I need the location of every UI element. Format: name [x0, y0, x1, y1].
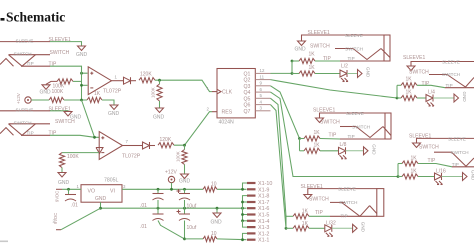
svg-text:SWITCH: SWITCH [352, 124, 370, 129]
wire +12V to R3 [31, 99, 49, 101]
ground GND (J4 sleeve) [407, 66, 415, 71]
junction X1-1 [241, 238, 244, 241]
svg-text:SLEEVE: SLEEVE [448, 136, 466, 141]
wire Q4 to group L/16 [271, 92, 399, 176]
svg-text:VO: VO [88, 189, 96, 195]
svg-text:SWITCH: SWITCH [419, 145, 439, 151]
svg-text:SLEEVE1: SLEEVE1 [49, 37, 71, 43]
wire R19 to LED [286, 227, 325, 229]
wire R13 to LED [397, 97, 426, 99]
capacitor C5 10uf (rail B-C) [177, 208, 197, 239]
pin 12 Q1 stub [255, 68, 270, 73]
header pin X1-5 [247, 213, 269, 219]
wire Q2 to group L/4 [271, 80, 398, 98]
svg-text:X1-3: X1-3 [258, 225, 269, 231]
ground GND rotated (L/8) [364, 144, 377, 155]
jack J6 (L/16 group, cut at right) [417, 136, 474, 167]
resistor R10 1K (tip row) [299, 52, 315, 64]
svg-text:9VDC: 9VDC [55, 191, 60, 202]
wire J1 sleeve to ground [50, 42, 82, 46]
power connector X2 pin1 [55, 189, 63, 202]
net label SLEEVE1 (J3) [308, 30, 330, 36]
svg-text:SWITCH: SWITCH [320, 119, 340, 125]
pin 9 Q3 stub [255, 81, 270, 86]
net label SWITCH (J6) [419, 145, 439, 151]
svg-text:TIP: TIP [27, 61, 34, 66]
jack J3 (L/2 group) [302, 33, 391, 61]
svg-text:1K: 1K [411, 156, 418, 162]
resistor R17 1K (LED row) [402, 169, 418, 179]
svg-text:6: 6 [260, 87, 263, 92]
wire LED to ground [346, 150, 364, 152]
wire rail B (GND) [101, 207, 247, 209]
resistor R14 1K (tip row) [304, 130, 320, 141]
wire J2 tip to U1B + input [50, 135, 99, 137]
svg-text:SWITCH: SWITCH [309, 196, 329, 202]
junction X1-9 [241, 188, 244, 191]
capacitor C1 .01 [65, 189, 78, 208]
net label SLEEVE1 (J7) [301, 184, 323, 190]
svg-text:X1-1: X1-1 [258, 238, 269, 244]
ground GND (J6 sleeve) [413, 143, 421, 148]
wire R10 to tip [292, 60, 340, 62]
header pin X1-9 [247, 187, 269, 193]
svg-text:X1-2: X1-2 [258, 231, 269, 237]
svg-text:7805L: 7805L [104, 177, 119, 183]
wire R8 to RES pin [174, 112, 212, 146]
junction chain dots [241, 201, 244, 223]
wire R17 to LED [398, 176, 435, 178]
wire bias node to U1B + input [82, 100, 95, 137]
pin 11 Q2 stub [255, 74, 270, 79]
svg-text:L/8: L/8 [340, 142, 347, 148]
svg-text:SLEEVE: SLEEVE [338, 187, 356, 192]
net label SWITCH (J7) [309, 196, 329, 202]
svg-text:12: 12 [260, 68, 265, 73]
diode D1 [116, 77, 137, 84]
resistor R13 1K (LED row) [401, 89, 417, 100]
jack J1 (top left, partially cut) [0, 38, 50, 66]
svg-text:100K: 100K [67, 154, 79, 160]
junction rail C [183, 238, 186, 241]
svg-text:SLEEVE: SLEEVE [346, 111, 364, 116]
wire Q5 to group L/32 tip row [271, 98, 287, 216]
svg-text:SLEEVE1: SLEEVE1 [403, 55, 425, 61]
svg-text:1K: 1K [411, 169, 418, 175]
header pin X1-8 [247, 194, 269, 200]
svg-text:1K: 1K [302, 221, 309, 227]
svg-text:GND: GND [76, 52, 88, 58]
svg-text:Q1: Q1 [244, 71, 251, 77]
svg-text:X1-9: X1-9 [258, 187, 269, 193]
svg-text:Q5: Q5 [244, 96, 251, 102]
junction R8/R9 [183, 144, 186, 147]
svg-text:4: 4 [260, 99, 263, 104]
junction rail A dots [157, 188, 186, 191]
net label SWITCH (J4) [409, 69, 429, 75]
svg-text:+12V: +12V [165, 170, 177, 176]
net label SWITCH (J2) [55, 119, 75, 125]
resistor R21 10 (rail C) [203, 231, 217, 241]
svg-text:3: 3 [260, 106, 263, 111]
wire LED to ground [442, 176, 463, 178]
net label SWITCH (J5) [320, 119, 340, 125]
ground GND (J1 sleeve) [76, 46, 88, 58]
junction Q4 node [397, 175, 400, 178]
net label SLEEVE1 (J6) [409, 134, 431, 140]
wire R6 to ground [159, 80, 161, 107]
wire LED to ground [433, 97, 454, 99]
svg-text:Schematic: Schematic [6, 10, 65, 25]
svg-text:Q3: Q3 [244, 84, 251, 90]
svg-text:.01: .01 [140, 203, 147, 209]
svg-text:X1-4: X1-4 [258, 219, 269, 225]
junction Q1 node [291, 60, 294, 75]
wire junction vertical (J7 rows) [285, 216, 287, 228]
svg-text:Q2: Q2 [244, 78, 251, 84]
jack J2 (left, partially cut) [0, 108, 50, 136]
pin 5 Q5 stub [255, 93, 270, 98]
net label SLEEVE1 (J5) [313, 108, 335, 114]
LED L/16 [435, 169, 446, 185]
svg-text:1K: 1K [94, 91, 101, 97]
wire VO to connector (rail A left) [62, 188, 81, 190]
net label TIP (J6) [428, 158, 436, 164]
wire X1-3 hook to X1-4 [243, 221, 248, 227]
svg-text:TL072P: TL072P [103, 89, 122, 95]
svg-text:SWITCH: SWITCH [14, 51, 32, 56]
svg-text:1K: 1K [309, 52, 316, 58]
resistor R8 120K [158, 137, 174, 148]
svg-text:GND: GND [179, 179, 191, 185]
resistor R7 100K (U1B - to gnd) [59, 153, 79, 168]
svg-text:GND: GND [95, 196, 107, 202]
svg-text:SLEEVE1: SLEEVE1 [301, 184, 323, 190]
svg-text:SLEEVE: SLEEVE [16, 108, 34, 113]
ground GND rotated (L/2) [358, 67, 371, 78]
ground GND (R4) [108, 105, 120, 117]
svg-text:SWITCH: SWITCH [345, 46, 363, 51]
resistor R15 1K (LED row) [304, 143, 320, 154]
wire R14 to tip [300, 138, 341, 141]
svg-text:GND: GND [372, 144, 377, 155]
junction (+ input node) [80, 72, 83, 75]
junction Q5/Q6 node [285, 227, 288, 230]
svg-text:X1-10: X1-10 [258, 181, 272, 187]
svg-text:SWITCH: SWITCH [442, 72, 460, 77]
junction Q3 node [298, 137, 301, 140]
header pin X1-6 [247, 206, 269, 212]
jack J7 (L/32 group) [308, 187, 384, 219]
header pin X1-7 [247, 200, 269, 206]
junction VO node [67, 188, 70, 191]
wire X1-8 hook to X1-7 [243, 196, 248, 202]
svg-text:X1-7: X1-7 [258, 200, 269, 206]
svg-text:SLEEVE: SLEEVE [442, 60, 460, 65]
supply +12V (rail tap) [165, 170, 177, 183]
header pin X1-4 [247, 219, 269, 225]
ground GND rotated (L/4) [454, 92, 467, 103]
op-amp U1B TL072P [96, 132, 127, 160]
junction U1B + input [93, 136, 96, 139]
svg-text:.01: .01 [71, 203, 78, 209]
svg-text:L/4: L/4 [428, 89, 435, 95]
net label TIP (J2) [49, 131, 57, 137]
resistor R5 120K [139, 72, 155, 83]
svg-text:SWITCH: SWITCH [339, 200, 357, 205]
svg-text:TIP: TIP [348, 56, 355, 61]
svg-text:1K: 1K [314, 143, 321, 149]
svg-text:1K: 1K [314, 130, 321, 136]
ground GND (J3 sleeve) [295, 41, 307, 53]
wire 7805 GND pin to rail B [100, 202, 102, 208]
wire U1B - input to R7 [62, 152, 99, 154]
label TL072P (U1A) [103, 89, 122, 95]
svg-text:1K: 1K [406, 89, 413, 95]
op-amp U1A TL072P [88, 67, 115, 95]
wire R4 to ground [102, 100, 114, 105]
jack J4 (L/4 group, cut at right) [411, 60, 474, 89]
header pin X1-2 [247, 231, 269, 237]
wire group vertical joins [292, 61, 398, 177]
wire R18 to tip [286, 215, 330, 217]
ground GND (R6) [153, 108, 165, 120]
svg-text:SWITCH: SWITCH [451, 150, 469, 155]
wire X1-2 hook to X1-1 [243, 233, 248, 239]
pin 1 VO stub [77, 184, 80, 189]
LED L/2 [340, 64, 348, 82]
wire LED to ground [347, 73, 358, 75]
wire rail C [185, 238, 247, 241]
ground GND (R7) [58, 173, 70, 187]
header pin X1-3 [247, 225, 269, 231]
net label SLEEVE1 (J2) [49, 106, 71, 112]
svg-text:TIP: TIP [348, 134, 355, 139]
resistor R11 1K (LED row) [299, 65, 315, 76]
pin 3 VI stub [123, 184, 126, 189]
junction R5/R6 [158, 79, 161, 82]
resistor R20 10 (rail A) [203, 182, 217, 192]
svg-text:11: 11 [260, 74, 265, 79]
wire R11 to LED [292, 73, 340, 75]
resistor R9 100K (vertical to gnd) [176, 150, 188, 165]
svg-text:GND: GND [70, 115, 82, 121]
svg-text:4024N: 4024N [219, 120, 235, 126]
svg-text:TIP: TIP [452, 162, 459, 167]
ground GND (J7 sleeve) [304, 195, 312, 200]
wire gnd chain X1-7..X1-4 [243, 202, 248, 221]
svg-text:X1-8: X1-8 [258, 194, 269, 200]
svg-text:5: 5 [260, 93, 263, 98]
wire R2 to - node [73, 80, 82, 82]
LED L/8 [339, 142, 347, 159]
svg-text:1K: 1K [302, 209, 309, 215]
wire +12V tap to rail A [171, 183, 173, 190]
svg-text:TIP: TIP [315, 210, 323, 216]
wire R15 to LED [300, 150, 339, 152]
pin 4 Q6 stub [255, 99, 270, 104]
svg-text:SLEEVE1: SLEEVE1 [313, 108, 335, 114]
capacitor C3 10uf (rail A-B) [177, 189, 197, 210]
wire R9 to ground [184, 145, 186, 173]
net label SLEEVE1 (J1) [49, 37, 71, 43]
wire J2 sleeve to ground [50, 110, 68, 113]
svg-text:100K: 100K [52, 89, 64, 95]
title text "Schematic" [1, 10, 66, 25]
svg-text:GND: GND [58, 180, 70, 186]
junction Q2 node [396, 97, 399, 100]
svg-text:SLEEVE: SLEEVE [16, 38, 34, 43]
svg-text:10: 10 [211, 231, 217, 237]
svg-text:GND: GND [40, 89, 52, 95]
ground GND (rail B tap) [211, 208, 223, 225]
frame fragment (bottom left) [0, 241, 8, 243]
svg-text:GND: GND [471, 170, 474, 181]
resistor R18 1K (tip row) [293, 209, 309, 219]
net label TIP (J4) [422, 81, 430, 87]
net label TIP (J5) [329, 133, 337, 139]
IC U2 4024N counter [217, 69, 255, 126]
capacitor C2 .01 (rail A-B) [140, 189, 164, 209]
net label SWITCH (J1) [50, 50, 70, 56]
junction (- input) [80, 84, 83, 87]
wire rail A (12V) [122, 188, 247, 190]
net label TIP (J3) [323, 56, 331, 62]
label TL072P (U1B) [122, 154, 141, 160]
resistor R16 1K (tip row) [402, 156, 418, 166]
jack J5 (L/8 group) [320, 111, 392, 139]
svg-text:100K: 100K [151, 86, 156, 98]
wire R12 to tip [397, 85, 445, 87]
svg-text:Q4: Q4 [244, 90, 251, 96]
svg-text:SLEEVE: SLEEVE [345, 33, 363, 38]
wire LED to ground [332, 227, 353, 229]
ground GND rotated (L/16) [463, 170, 474, 181]
supply +12V (left) [16, 92, 31, 104]
wire - input node [82, 66, 88, 100]
svg-text:TIP: TIP [446, 83, 453, 88]
svg-text:SWITCH: SWITCH [310, 44, 330, 50]
svg-text:2: 2 [207, 106, 210, 111]
svg-text:TIP: TIP [422, 81, 430, 87]
resistor R12 1K (tip row) [401, 77, 417, 88]
resistor R3 100K (bias divider top) [49, 89, 64, 103]
svg-text:L/2: L/2 [341, 64, 348, 70]
pin 3 Q7 stub [255, 106, 270, 111]
ground GND rotated (L/32) [353, 222, 366, 233]
pin 1 CLK stub [207, 86, 218, 91]
svg-text:SWITCH: SWITCH [409, 69, 429, 75]
svg-text:9: 9 [260, 81, 263, 86]
resistor R6 100K (vertical to gnd) [151, 84, 163, 101]
svg-text:Q6: Q6 [244, 103, 251, 109]
svg-text:TIP: TIP [329, 133, 337, 139]
junction rail B dots [99, 207, 244, 210]
header pin X1-10 [247, 181, 272, 187]
svg-text:L/16: L/16 [436, 169, 446, 175]
svg-text:GND: GND [108, 111, 120, 117]
ground GND (J5 sleeve) [316, 118, 324, 123]
svg-text:TL072P: TL072P [122, 154, 141, 160]
wire R5 to CLK [155, 80, 212, 91]
ground GND (R9) [179, 174, 191, 185]
svg-text:SWITCH: SWITCH [50, 50, 70, 56]
svg-text:GND: GND [361, 222, 366, 233]
pin 2 RES stub [207, 106, 218, 111]
junction bias node [80, 99, 83, 102]
wire rail B to X2 pin2 [61, 208, 101, 230]
ground GND (R2) [40, 85, 52, 96]
regulator VR1 7805L [81, 177, 122, 202]
svg-text:VI: VI [110, 189, 115, 195]
svg-text:TIP: TIP [27, 130, 34, 135]
svg-text:X1-5: X1-5 [258, 213, 269, 219]
svg-text:120K: 120K [160, 137, 172, 143]
svg-text:3: 3 [123, 184, 126, 189]
svg-text:SLEEVE1: SLEEVE1 [409, 134, 431, 140]
svg-text:+12V: +12V [16, 92, 21, 104]
wire X1-10 hook to X1-9 [243, 183, 248, 189]
net label SLEEVE1 (J4) [403, 55, 425, 61]
wire R16 to tip [398, 164, 452, 167]
resistor R2 100K (to - input) [46, 79, 73, 90]
resistor R19 1K (LED row) [293, 221, 309, 231]
capacitor C4 .01 (rail B-C) [140, 208, 185, 239]
ground GND (J2 sleeve) [64, 112, 82, 121]
svg-text:1K: 1K [406, 77, 413, 83]
svg-text:GND: GND [366, 67, 371, 78]
net label SWITCH (J3) [310, 44, 330, 50]
svg-text:SLEEVE1: SLEEVE1 [308, 30, 330, 36]
svg-text:GND: GND [153, 114, 165, 120]
resistor R4 1K (bias divider bottom) [87, 91, 102, 103]
svg-text:10uf: 10uf [187, 225, 197, 231]
svg-text:GND: GND [295, 47, 307, 53]
net label TIP (J7) [315, 210, 323, 216]
svg-text:7: 7 [126, 139, 129, 144]
svg-text:10uf: 10uf [187, 204, 197, 210]
svg-text:1: 1 [77, 184, 80, 189]
svg-text:SWITCH: SWITCH [14, 121, 32, 126]
svg-text:10: 10 [211, 182, 217, 188]
svg-text:CLK: CLK [222, 90, 233, 96]
svg-text:1K: 1K [309, 65, 316, 71]
wire Q3 to group L/8 [271, 86, 300, 139]
svg-text:1: 1 [115, 74, 118, 79]
wire Q6 to group L/32 LED row [271, 105, 287, 229]
diode D2 [127, 142, 156, 149]
wire Q1 to group L/2 [271, 61, 293, 73]
svg-text:GND: GND [462, 92, 467, 103]
svg-text:100K: 100K [176, 150, 181, 162]
svg-text:TIP: TIP [341, 214, 348, 219]
svg-text:L/32: L/32 [326, 221, 336, 227]
svg-text:Q7: Q7 [244, 109, 251, 115]
svg-text:.01: .01 [140, 224, 147, 230]
power connector X2 pin2 [53, 213, 62, 230]
header pin X1-1 [247, 238, 269, 244]
pin number 7 (U1B out) [126, 139, 129, 144]
net label TIP (J1) [49, 61, 57, 67]
LED L/32 [325, 221, 336, 237]
wire J1 tip to op-amp U1A + input [50, 66, 88, 73]
wire R7 to ground [61, 168, 63, 172]
svg-text:RES: RES [222, 110, 233, 116]
wire R3 to node [64, 99, 87, 101]
pin 6 Q4 stub [255, 87, 270, 92]
LED L/4 [426, 89, 435, 106]
svg-text:120K: 120K [140, 72, 152, 78]
